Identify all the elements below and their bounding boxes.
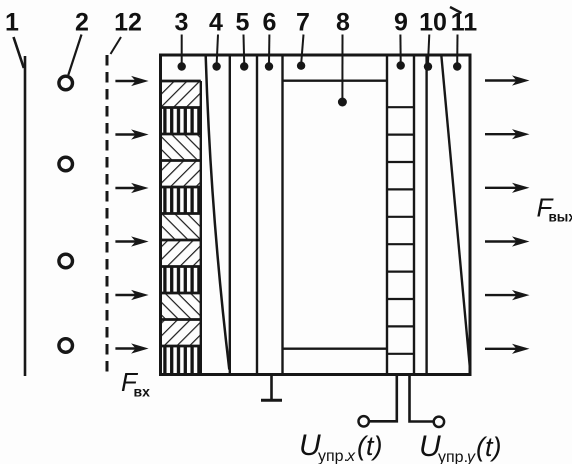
input arrow 3: [115, 183, 148, 193]
electrode stack 3: cell 7 hatch: [162, 240, 201, 267]
input arrow 5: [115, 290, 148, 300]
output arrow 2: [485, 129, 530, 139]
input arrow 6: [115, 343, 148, 353]
terminal circle y: [434, 417, 444, 427]
electrode stack 3: cell 1 hatch: [162, 81, 201, 108]
U control y label: [419, 430, 501, 466]
leader 6: [268, 35, 270, 64]
electrode stack right wall: [200, 81, 202, 373]
svg-text:10: 10: [419, 9, 447, 37]
svg-text:3: 3: [175, 9, 189, 37]
leader 4: [217, 35, 218, 64]
mirror line 1 with leader: [14, 37, 26, 376]
svg-text:12: 12: [114, 9, 142, 37]
electrode stack 3: cell 2 bars: [162, 108, 201, 135]
leader 11: [456, 35, 458, 64]
plate line 6: [256, 55, 258, 375]
stray mark above label 11: [450, 7, 462, 13]
terminal circle x: [359, 416, 369, 426]
diagonal electrode 4: [206, 56, 230, 370]
modulator cell body: [161, 55, 471, 375]
electrode stack 3: cell 3 hatch: [162, 134, 201, 161]
plate line 5: [229, 55, 231, 375]
electrode stack 3: cell 9 hatch: [162, 293, 201, 320]
node dot 11: [453, 62, 461, 70]
output arrow 1: [485, 75, 530, 85]
leader 5: [243, 35, 246, 64]
output arrow 4: [485, 236, 530, 246]
svg-text:вых: вых: [549, 210, 572, 225]
F output label: [537, 193, 572, 225]
ground stem: [270, 376, 273, 400]
node dot 10: [424, 62, 432, 70]
ladder electrode 9 right wall: [413, 55, 415, 375]
leader 7: [301, 35, 303, 63]
electrode stack 3: cell 10 hatch: [162, 320, 201, 347]
dashed reference plane 12: [106, 55, 109, 373]
electrode stack separators: [162, 81, 201, 346]
node dot 8: [338, 98, 347, 107]
output arrow 6: [485, 344, 530, 354]
node dot 6: [265, 62, 273, 70]
input arrow 2: [115, 129, 148, 139]
output arrow 3: [485, 183, 530, 193]
svg-text:упр.: упр.: [438, 449, 468, 464]
svg-text:(t): (t): [357, 431, 382, 461]
svg-text:11: 11: [451, 9, 478, 37]
leader line for label 12: [111, 37, 122, 54]
svg-text:1: 1: [5, 9, 19, 37]
leader 10: [428, 35, 429, 64]
svg-text:9: 9: [394, 9, 408, 37]
diagonal electrode 11: [441, 55, 470, 369]
node dot 3: [178, 62, 186, 70]
electrode stack 3: cell 4 hatch: [162, 161, 201, 188]
leader 3: [181, 35, 183, 64]
ladder electrode 9 left wall: [386, 55, 388, 375]
electrode stack 3: cell 11 bars: [162, 346, 201, 373]
leader 9: [399, 35, 401, 63]
input arrow 1: [115, 76, 148, 86]
inner top line of crystal 8: [283, 79, 388, 81]
control wire x: [370, 376, 397, 421]
input arrow 4: [115, 236, 148, 246]
ground bar: [261, 399, 282, 402]
aperture circle 2c: [59, 254, 73, 268]
svg-text:6: 6: [263, 9, 277, 37]
node dot 7: [297, 61, 305, 69]
svg-text:(t): (t): [476, 432, 501, 462]
electrode stack 3: cell 6 hatch: [162, 214, 201, 241]
output arrow 5: [485, 290, 530, 300]
F input label: [121, 367, 150, 400]
aperture circle 2a: [59, 76, 73, 90]
svg-text:5: 5: [236, 9, 250, 37]
svg-text:7: 7: [296, 9, 310, 37]
leader line for label 2: [68, 35, 81, 76]
control wire y: [410, 376, 434, 422]
leader 8: [341, 35, 343, 100]
aperture circle 2d: [59, 339, 73, 353]
node dot 9: [397, 61, 405, 69]
svg-text:y: y: [466, 449, 476, 464]
ladder rungs: [387, 107, 414, 354]
node dot 4: [212, 62, 220, 70]
svg-text:4: 4: [209, 9, 223, 37]
svg-text:упр.: упр.: [318, 448, 348, 464]
U control x label: [299, 429, 382, 465]
node dot 5: [240, 62, 248, 70]
svg-text:8: 8: [336, 9, 350, 37]
inner bottom line of crystal 8: [283, 348, 388, 350]
aperture circle 2b: [59, 157, 73, 171]
electrode stack 3: cell 5 bars: [162, 187, 201, 214]
svg-text:вх: вх: [134, 384, 151, 400]
electrode stack 3: cell 8 bars: [162, 267, 201, 294]
svg-text:2: 2: [75, 9, 89, 37]
svg-text:x: x: [346, 448, 356, 464]
plate line 10: [425, 55, 427, 375]
plate line 7: [281, 55, 283, 375]
